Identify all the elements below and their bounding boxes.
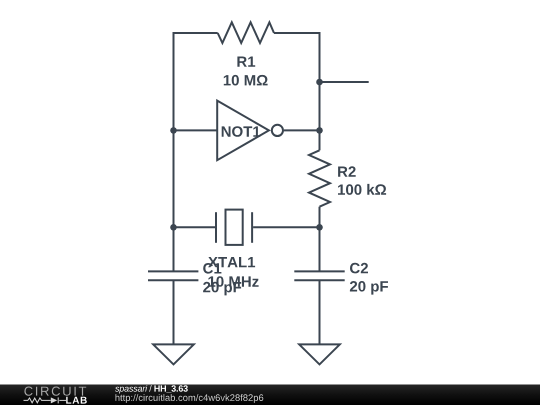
logo diode triangle <box>51 397 57 403</box>
ground symbol left <box>153 344 194 364</box>
junction: right rail / NOT1 output <box>316 127 323 134</box>
ground symbol right <box>299 344 340 364</box>
wire: output stub <box>320 81 369 83</box>
wire: crystal left lead <box>174 226 216 228</box>
capacitor C1 top plate <box>148 270 198 272</box>
crystal XTAL1 left plate <box>215 212 217 243</box>
junction: left rail / crystal <box>170 224 177 231</box>
wire: left rail <box>173 32 175 271</box>
wire: C2 to ground <box>319 280 321 344</box>
NOT1 output bubble <box>272 125 283 136</box>
label NOT1 designator <box>222 126 261 137</box>
footer bar <box>0 385 540 405</box>
capacitor C2 bottom plate <box>294 279 344 281</box>
resistor R1 <box>218 22 274 43</box>
label R2 designator <box>338 166 356 177</box>
crystal XTAL1 body <box>226 210 243 245</box>
capacitor C1 bottom plate <box>148 279 198 281</box>
logo resistor-diode squiggle <box>24 397 67 403</box>
junction: right rail / output stub <box>316 79 323 86</box>
wire: right rail upper <box>319 32 321 150</box>
junction: left rail / NOT1 input <box>170 127 177 134</box>
wire: top rail left segment <box>174 32 218 34</box>
wire: top rail right segment <box>274 32 320 34</box>
junction: right rail / crystal <box>316 224 323 231</box>
label C1 designator <box>203 263 221 274</box>
label C1 value <box>203 282 241 296</box>
label R2 value <box>338 184 386 195</box>
footer attribution line <box>115 385 188 393</box>
crystal XTAL1 right plate <box>251 212 253 243</box>
logo CIRCUIT wordmark <box>24 387 86 396</box>
label C2 value <box>350 281 388 295</box>
label XTAL1 designator <box>208 257 255 267</box>
resistor R2 <box>309 150 330 206</box>
wire: C1 to ground <box>173 280 175 344</box>
capacitor C2 top plate <box>294 270 344 272</box>
label XTAL1 value <box>208 276 258 287</box>
inverter NOT1 triangle <box>217 101 269 161</box>
footer url line <box>116 394 264 403</box>
wire: NOT1 input <box>174 129 218 131</box>
wire: NOT1 output <box>284 129 320 131</box>
label R1 designator <box>237 57 255 67</box>
logo LAB wordmark <box>66 397 87 404</box>
wire: right rail lower <box>319 207 321 272</box>
label R1 value <box>224 75 268 86</box>
label C2 designator <box>350 263 368 274</box>
wire: crystal right lead <box>253 226 319 228</box>
